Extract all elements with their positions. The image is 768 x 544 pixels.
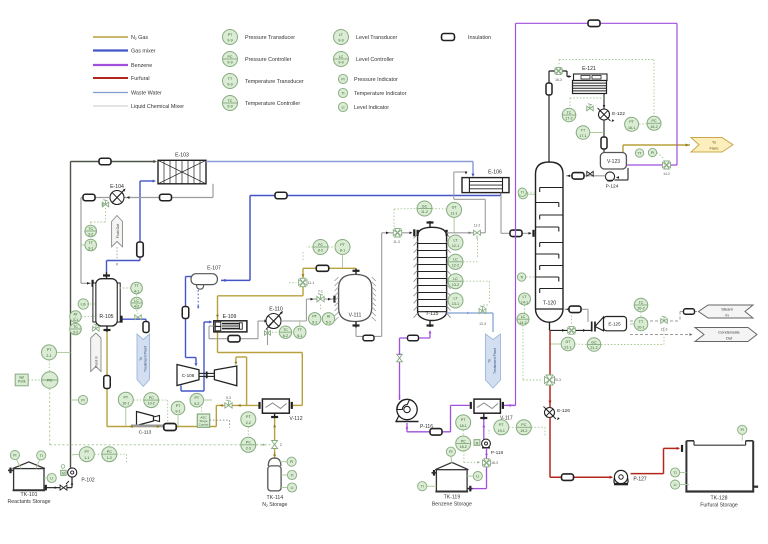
svg-text:E-122: E-122 — [612, 111, 625, 117]
svg-text:6-2: 6-2 — [283, 334, 288, 338]
svg-text:12-2: 12-2 — [452, 263, 459, 267]
svg-text:To: To — [488, 359, 492, 363]
svg-text:10-2: 10-2 — [148, 402, 155, 406]
svg-text:1-1: 1-1 — [84, 456, 89, 460]
svg-text:Condensate: Condensate — [718, 330, 740, 335]
svg-text:Insulation: Insulation — [468, 35, 491, 41]
svg-text:TI: TI — [674, 471, 677, 475]
svg-text:TK-101: TK-101 — [20, 492, 37, 498]
svg-text:13-3: 13-3 — [479, 322, 486, 326]
svg-text:Pressure Indicator: Pressure Indicator — [354, 77, 398, 83]
svg-text:Level Indicator: Level Indicator — [354, 105, 389, 111]
svg-text:RC: RC — [47, 379, 53, 383]
svg-text:Flare: Flare — [709, 146, 719, 151]
svg-text:Fluid Out: Fluid Out — [116, 224, 120, 239]
svg-text:TC: TC — [73, 325, 78, 329]
svg-text:TK-128: TK-128 — [710, 496, 727, 502]
svg-text:3-2: 3-2 — [73, 331, 78, 335]
svg-text:9-3: 9-3 — [226, 396, 231, 400]
svg-text:Benzene: Benzene — [131, 63, 152, 69]
svg-text:E-106: E-106 — [488, 170, 502, 176]
svg-text:TI: TI — [290, 473, 293, 477]
svg-text:Reactants Storage: Reactants Storage — [8, 499, 51, 505]
svg-text:PC: PC — [521, 423, 526, 427]
svg-text:T-115: T-115 — [426, 311, 439, 317]
svg-text:11-2: 11-2 — [474, 223, 481, 227]
svg-text:PT: PT — [228, 33, 233, 37]
svg-text:TC: TC — [88, 227, 93, 231]
svg-text:20-3: 20-3 — [554, 378, 561, 382]
svg-text:E-103: E-103 — [175, 153, 189, 159]
svg-text:5-2: 5-2 — [326, 320, 331, 324]
svg-text:4-1: 4-1 — [134, 290, 139, 294]
svg-text:PT: PT — [312, 315, 317, 319]
svg-text:GT: GT — [452, 206, 458, 210]
svg-text:16-1: 16-1 — [628, 126, 635, 130]
svg-text:TI: TI — [341, 91, 344, 95]
svg-text:17-1: 17-1 — [579, 134, 586, 138]
svg-text:2-2: 2-2 — [246, 421, 251, 425]
svg-text:E-107: E-107 — [207, 266, 221, 272]
svg-text:Point: Point — [18, 380, 26, 384]
svg-text:LI: LI — [50, 476, 53, 480]
svg-text:TC: TC — [228, 99, 233, 103]
svg-text:9-9: 9-9 — [338, 39, 343, 43]
svg-text:PT: PT — [629, 120, 634, 124]
svg-text:N2 Gas: N2 Gas — [131, 35, 148, 41]
svg-text:LC: LC — [521, 315, 526, 319]
svg-text:E-109: E-109 — [223, 314, 237, 320]
svg-text:PC: PC — [149, 396, 154, 400]
svg-text:Treatment Plant: Treatment Plant — [493, 348, 497, 374]
svg-text:LC: LC — [453, 277, 458, 281]
svg-text:9-2: 9-2 — [194, 402, 199, 406]
svg-text:16-2: 16-2 — [650, 125, 657, 129]
svg-text:TC: TC — [567, 111, 572, 115]
svg-text:Treatment Plant: Treatment Plant — [144, 346, 148, 372]
svg-text:Pressure Transducer: Pressure Transducer — [245, 35, 295, 41]
svg-text:13-2: 13-2 — [452, 283, 459, 287]
svg-text:2-1: 2-1 — [46, 354, 51, 358]
svg-text:TC: TC — [283, 328, 288, 332]
svg-text:P-124: P-124 — [606, 184, 619, 190]
svg-text:PC: PC — [318, 243, 323, 247]
svg-text:PC: PC — [228, 55, 233, 59]
svg-text:9-9: 9-9 — [227, 39, 232, 43]
svg-text:PI: PI — [741, 428, 744, 432]
svg-text:Furfural: Furfural — [131, 76, 150, 82]
svg-text:Waste Water: Waste Water — [131, 90, 162, 96]
svg-text:AI: AI — [327, 315, 330, 319]
svg-text:Pressure Controller: Pressure Controller — [245, 57, 292, 63]
svg-text:E-126: E-126 — [557, 408, 570, 414]
svg-text:PT: PT — [461, 418, 466, 422]
svg-text:PT: PT — [246, 415, 251, 419]
svg-text:21-2: 21-2 — [590, 346, 597, 350]
svg-text:Temperature Controller: Temperature Controller — [245, 101, 300, 107]
svg-text:Level Controller: Level Controller — [356, 57, 394, 63]
svg-text:V-112: V-112 — [289, 416, 302, 422]
svg-text:PI: PI — [13, 454, 16, 458]
svg-text:PT: PT — [499, 423, 504, 427]
svg-text:R-105: R-105 — [99, 314, 113, 320]
svg-text:PT: PT — [176, 404, 181, 408]
svg-text:PI: PI — [341, 77, 344, 81]
svg-text:LI: LI — [476, 475, 479, 479]
svg-text:Temperature Transducer: Temperature Transducer — [245, 79, 304, 85]
svg-text:PT: PT — [195, 396, 200, 400]
svg-text:C-113: C-113 — [139, 430, 152, 436]
svg-text:C-108: C-108 — [182, 373, 195, 378]
svg-text:8-1: 8-1 — [340, 249, 345, 253]
svg-text:7-1: 7-1 — [318, 290, 323, 294]
svg-text:13-1: 13-1 — [452, 302, 459, 306]
svg-text:LI: LI — [342, 105, 345, 109]
svg-text:11-1: 11-1 — [451, 212, 458, 216]
svg-text:Steam: Steam — [721, 307, 733, 312]
svg-text:19-2: 19-2 — [520, 429, 527, 433]
svg-text:PC: PC — [461, 439, 466, 443]
svg-text:PT: PT — [85, 450, 90, 454]
svg-text:9-9: 9-9 — [227, 105, 232, 109]
svg-text:16-3: 16-3 — [555, 78, 562, 82]
svg-text:PC: PC — [107, 450, 112, 454]
svg-text:Benzene Storage: Benzene Storage — [432, 502, 472, 508]
svg-text:21-1: 21-1 — [564, 346, 571, 350]
svg-text:Temperature Indicator: Temperature Indicator — [354, 91, 407, 97]
svg-text:9-9: 9-9 — [338, 61, 343, 65]
svg-text:LI: LI — [291, 486, 294, 490]
svg-text:M: M — [476, 441, 479, 445]
svg-text:TI: TI — [40, 454, 43, 458]
svg-text:Furfural Storage: Furfural Storage — [700, 503, 738, 509]
svg-text:E-110: E-110 — [269, 307, 283, 313]
svg-text:T-120: T-120 — [543, 301, 556, 307]
svg-text:10-1: 10-1 — [122, 401, 129, 405]
svg-text:Level Transducer: Level Transducer — [356, 35, 398, 41]
svg-text:M: M — [62, 471, 65, 475]
svg-text:E-125: E-125 — [608, 322, 621, 327]
svg-text:18-3: 18-3 — [491, 461, 498, 465]
svg-text:PI: PI — [290, 460, 293, 464]
svg-text:PT: PT — [340, 243, 345, 247]
svg-text:14-2: 14-2 — [663, 172, 670, 176]
svg-text:5-1: 5-1 — [312, 320, 317, 324]
svg-text:TC: TC — [639, 301, 644, 305]
svg-text:TI: TI — [421, 485, 424, 489]
svg-text:Control: Control — [199, 423, 209, 427]
svg-text:PT: PT — [124, 396, 129, 400]
svg-text:LI: LI — [674, 483, 677, 487]
svg-text:20-1: 20-1 — [637, 326, 644, 330]
svg-text:3-1: 3-1 — [88, 247, 93, 251]
svg-text:PI: PI — [449, 450, 452, 454]
svg-text:E-121: E-121 — [582, 66, 596, 72]
svg-text:P-127: P-127 — [633, 477, 647, 483]
svg-text:GC: GC — [591, 340, 597, 344]
svg-text:LC: LC — [453, 258, 458, 262]
svg-text:LC: LC — [339, 55, 344, 59]
svg-text:TI: TI — [520, 275, 523, 279]
svg-text:6-1: 6-1 — [297, 334, 302, 338]
svg-text:E-104: E-104 — [110, 184, 124, 190]
svg-text:P-118: P-118 — [491, 450, 504, 456]
svg-text:PC: PC — [652, 119, 657, 123]
svg-text:Fluid In: Fluid In — [95, 356, 99, 368]
svg-text:Liquid Chemical Mixer: Liquid Chemical Mixer — [131, 104, 184, 110]
svg-text:11-2: 11-2 — [421, 210, 428, 214]
svg-text:V-111: V-111 — [349, 313, 362, 319]
svg-text:GC: GC — [422, 204, 428, 208]
svg-text:9-9: 9-9 — [227, 83, 232, 87]
svg-text:18-1: 18-1 — [460, 424, 467, 428]
svg-text:TT: TT — [637, 151, 641, 155]
svg-text:18-2: 18-2 — [460, 445, 467, 449]
svg-text:11-3: 11-3 — [393, 240, 400, 244]
svg-text:Gas mixer: Gas mixer — [131, 48, 156, 54]
svg-text:GT: GT — [566, 340, 572, 344]
svg-text:Out: Out — [726, 336, 733, 341]
svg-text:PI: PI — [81, 398, 84, 402]
svg-text:V-123: V-123 — [607, 159, 620, 165]
svg-text:TI: TI — [521, 191, 524, 195]
svg-text:17-2: 17-2 — [565, 117, 572, 121]
svg-text:20-2: 20-2 — [637, 307, 644, 311]
svg-text:P-102: P-102 — [81, 478, 95, 484]
svg-text:TK-119: TK-119 — [444, 495, 461, 501]
svg-text:TK-114: TK-114 — [266, 495, 283, 501]
svg-text:11-1: 11-1 — [308, 281, 315, 285]
svg-text:14-2: 14-2 — [519, 321, 526, 325]
svg-text:To: To — [139, 357, 143, 361]
svg-text:19-1: 19-1 — [498, 429, 505, 433]
svg-text:14-1: 14-1 — [521, 301, 528, 305]
svg-text:PC: PC — [246, 441, 251, 445]
svg-text:1-2: 1-2 — [107, 456, 112, 460]
svg-text:3-2: 3-2 — [88, 233, 93, 237]
svg-text:8-2: 8-2 — [318, 249, 323, 253]
svg-text:PI: PI — [651, 151, 654, 155]
svg-text:PT: PT — [47, 348, 52, 352]
svg-text:9-1: 9-1 — [175, 410, 180, 414]
svg-text:12-1: 12-1 — [452, 244, 459, 248]
svg-text:In: In — [725, 313, 728, 318]
svg-text:9-9: 9-9 — [227, 61, 232, 65]
svg-text:2-3: 2-3 — [246, 446, 251, 450]
